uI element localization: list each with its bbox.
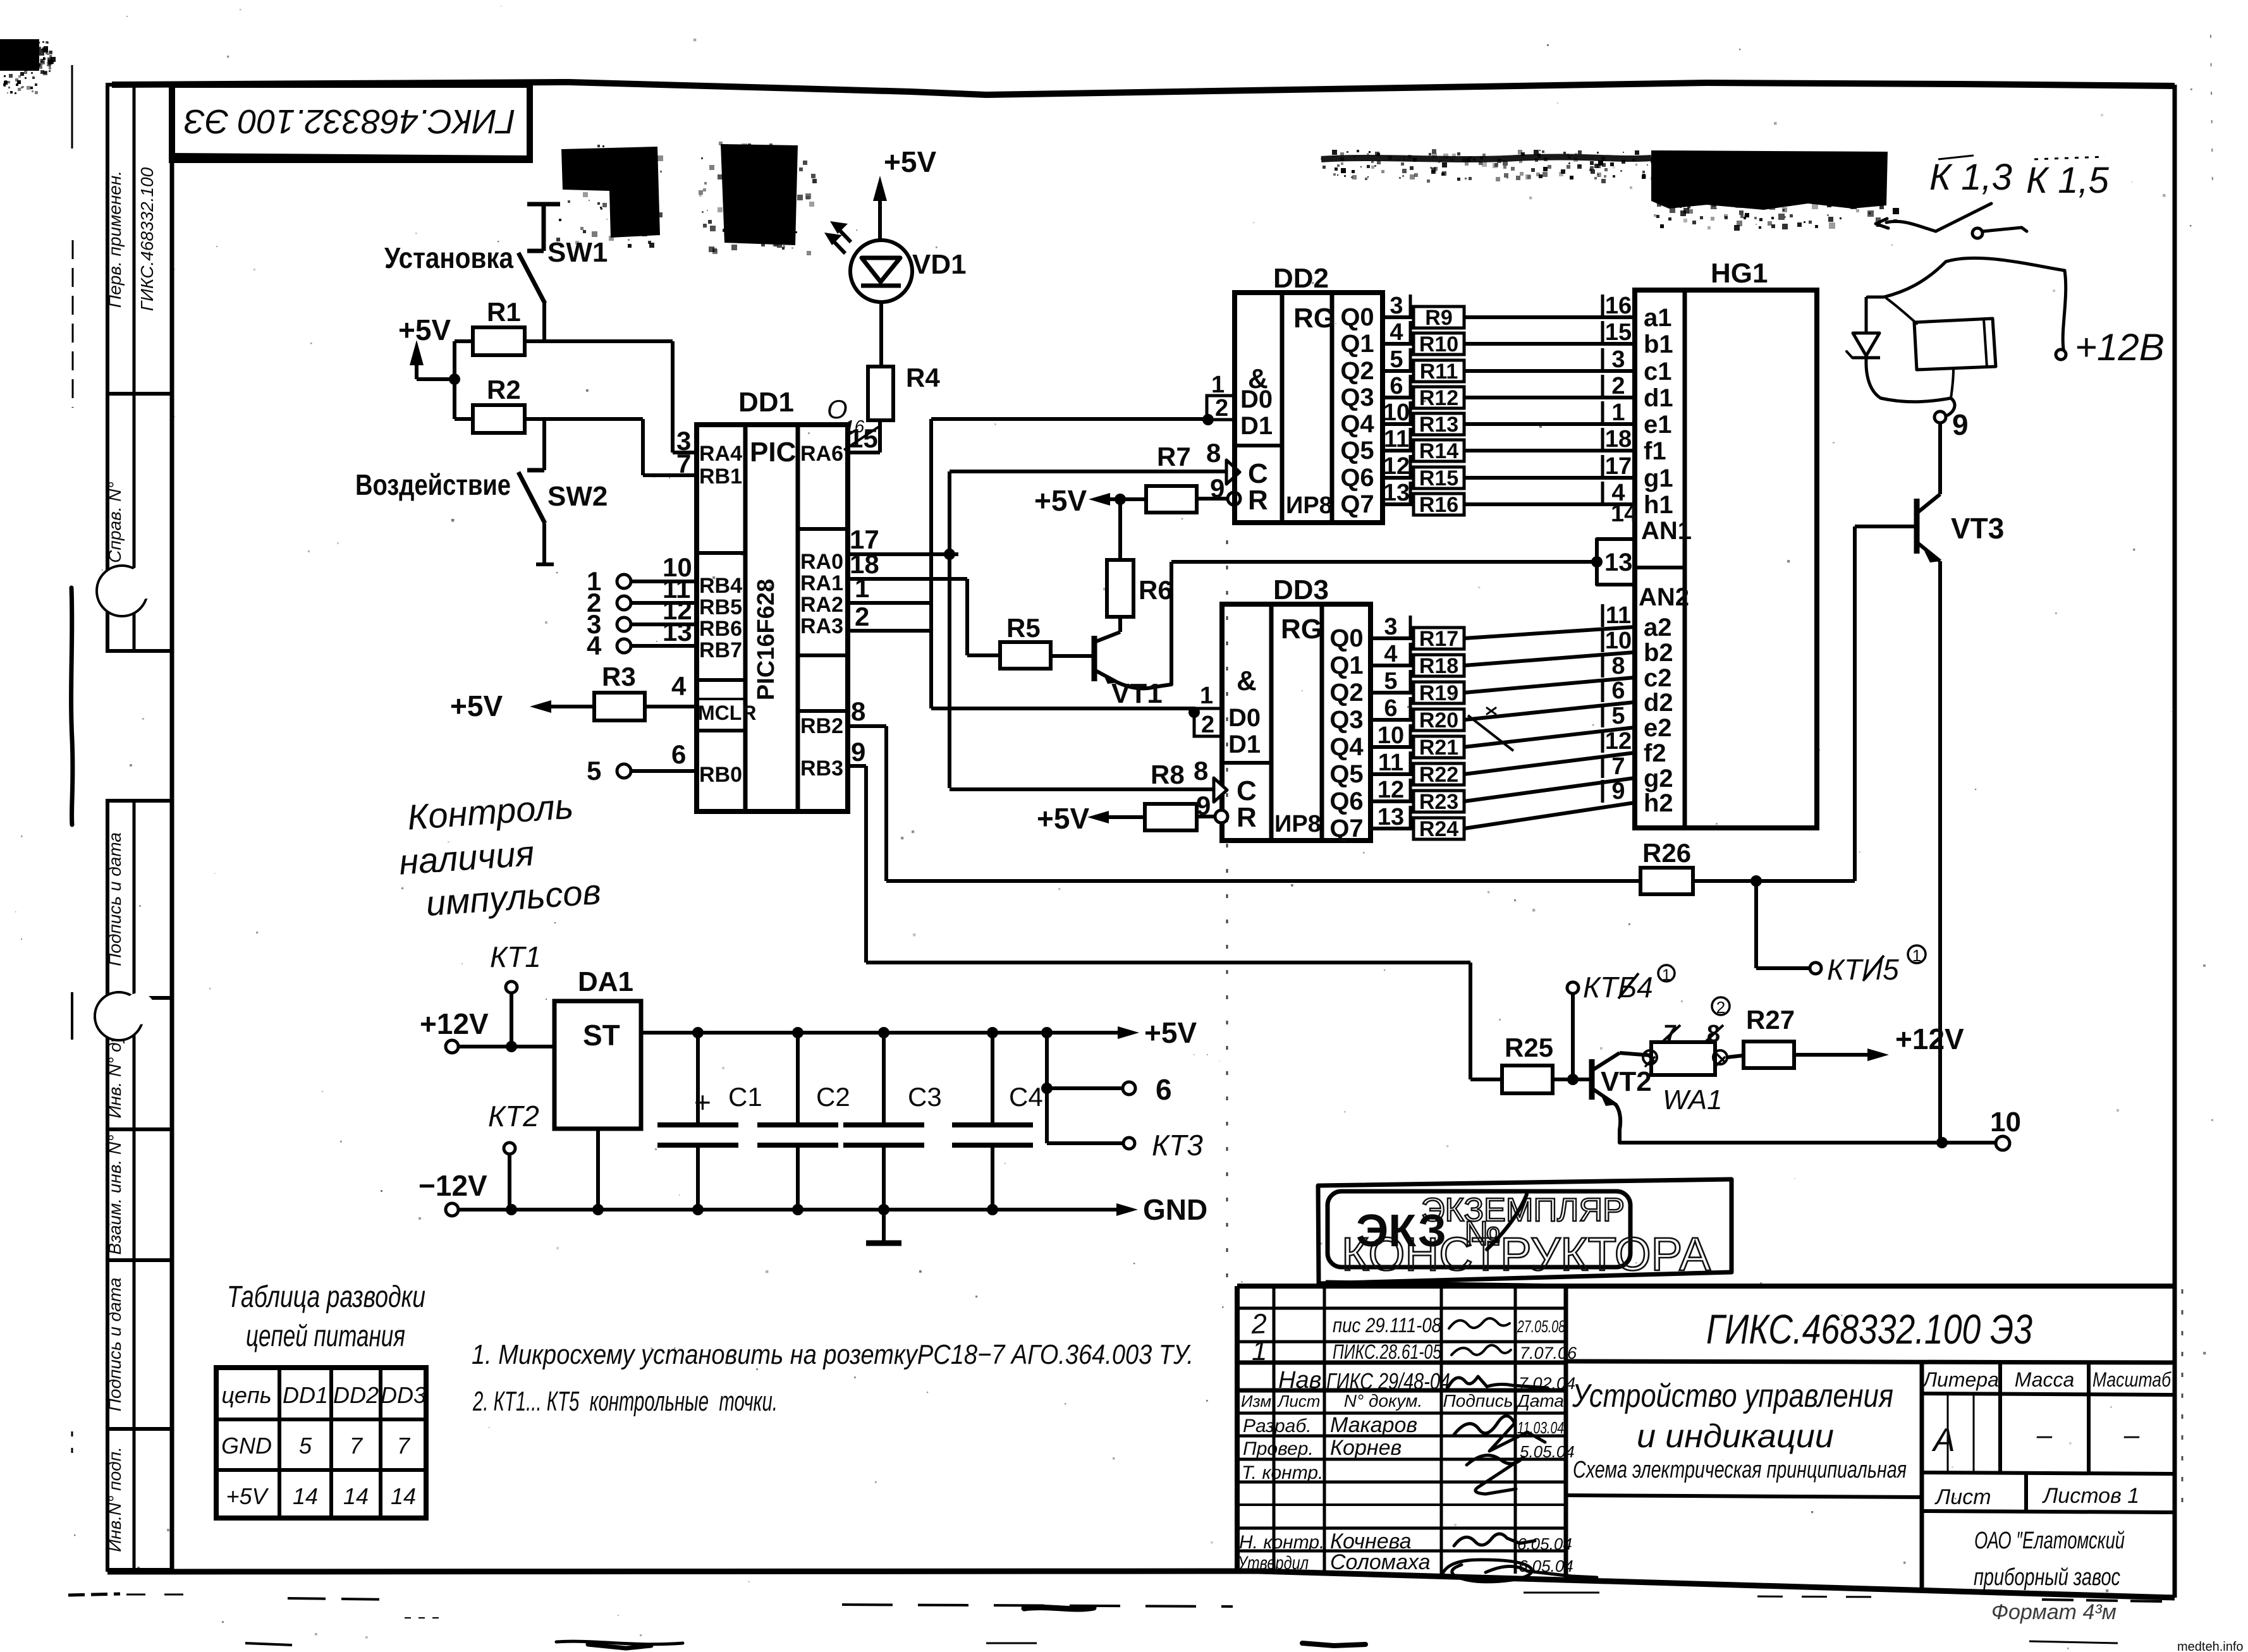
svg-text:7: 7 <box>350 1433 363 1459</box>
resistor R15 <box>1414 467 1464 489</box>
transistor VT2 <box>1592 1053 1651 1143</box>
wire R24 to HG1 h2 <box>1464 803 1635 829</box>
svg-text:3: 3 <box>1384 614 1397 640</box>
svg-text:ИР8: ИР8 <box>1286 492 1333 519</box>
DD3 R inverting circle <box>1215 810 1228 823</box>
svg-text:1: 1 <box>1211 372 1225 398</box>
svg-text:14: 14 <box>343 1483 369 1509</box>
svg-text:VT2: VT2 <box>1601 1066 1652 1097</box>
inspector stamp <box>1318 1179 1732 1286</box>
wire to terminal 10 <box>1620 1141 1996 1145</box>
svg-text:HG1: HG1 <box>1711 258 1768 289</box>
svg-text:10: 10 <box>1605 628 1632 654</box>
svg-text:e1: e1 <box>1644 411 1672 439</box>
svg-text:ГИКС.468332.100 Э3: ГИКС.468332.100 Э3 <box>1706 1306 2032 1352</box>
ground symbol <box>882 1210 886 1243</box>
DD2 D0/D1 bracket pins 1,2 <box>1207 396 1235 420</box>
drawing frame left line <box>170 85 174 1570</box>
HG1 pin13 bracket to AN1/AN2 <box>1597 539 1635 585</box>
svg-text:Q2: Q2 <box>1340 357 1374 385</box>
wire DD3 Q4 pin10 to R21 <box>1371 745 1414 749</box>
svg-text:RB6: RB6 <box>699 617 742 641</box>
svg-text:R10: R10 <box>1419 332 1458 356</box>
svg-text:c2: c2 <box>1644 664 1672 692</box>
svg-text:Q7: Q7 <box>1340 490 1374 518</box>
svg-text:Q0: Q0 <box>1340 303 1374 331</box>
transistor VT3 <box>1917 423 1940 1143</box>
svg-text:К 1,5: К 1,5 <box>2026 160 2110 201</box>
wire DD2 Q5 pin11 to R14 <box>1383 449 1414 452</box>
svg-text:А: А <box>1931 1422 1955 1459</box>
svg-text:RA0: RA0 <box>800 550 843 574</box>
svg-text:Взаим. инв. N°: Взаим. инв. N° <box>105 1135 125 1255</box>
svg-text:14: 14 <box>391 1483 416 1509</box>
scan artifact: black square top-left corner <box>0 39 56 94</box>
svg-text:VT3: VT3 <box>1951 512 2004 545</box>
svg-text:2: 2 <box>1201 712 1214 738</box>
svg-text:ГИКС.468332.100: ГИКС.468332.100 <box>137 167 157 311</box>
svg-text:R13: R13 <box>1419 413 1458 437</box>
svg-text:c1: c1 <box>1644 358 1672 386</box>
wire R2 to DD1 pin7 <box>525 417 643 421</box>
notes 1,2 <box>472 1339 1194 1417</box>
svg-text:27.05.08: 27.05.08 <box>1517 1317 1565 1336</box>
svg-text:2. КТ1... КТ5 контрольные то: 2. КТ1... КТ5 контрольные точки. <box>472 1386 778 1417</box>
GND rail <box>458 1208 1125 1212</box>
wire R12 to HG1 d1 <box>1464 396 1635 399</box>
wire R4 to DD1 RA6 pin15 <box>878 420 882 452</box>
svg-text:Подпись и дата: Подпись и дата <box>105 832 125 966</box>
svg-text:Разраб.: Разраб. <box>1243 1416 1312 1436</box>
svg-text:6: 6 <box>671 739 686 769</box>
wire to DD2 D0/D1 <box>931 417 1207 421</box>
svg-text:Т. контр.: Т. контр. <box>1242 1462 1323 1483</box>
svg-text:R11: R11 <box>1420 360 1458 384</box>
wire R18 to HG1 b2 <box>1464 652 1635 665</box>
svg-text:R23: R23 <box>1419 790 1458 814</box>
svg-text:R24: R24 <box>1419 817 1458 841</box>
svg-text:ЭКЗЕМПЛЯР: ЭКЗЕМПЛЯР <box>1421 1192 1625 1229</box>
handwritten check mark near R20 <box>1468 715 1513 751</box>
wire R23 to HG1 g2 <box>1464 778 1635 801</box>
+5V output rail <box>641 1031 1125 1035</box>
svg-text:16: 16 <box>1605 293 1632 319</box>
DD3 C dynamic input triangle <box>1214 778 1227 802</box>
drawing frame right line <box>2173 85 2177 1598</box>
svg-text:f1: f1 <box>1644 437 1666 465</box>
svg-text:+12В: +12В <box>2075 326 2165 368</box>
svg-text:Устройство управления: Устройство управления <box>1572 1378 1893 1414</box>
svg-text:Нав.: Нав. <box>1278 1367 1328 1394</box>
resistor R25 <box>1502 1066 1553 1093</box>
svg-text:R17: R17 <box>1419 627 1458 651</box>
svg-text:RB2: RB2 <box>800 714 843 738</box>
svg-text:9: 9 <box>1611 778 1625 805</box>
wire DD2 Q6 pin12 to R15 <box>1383 476 1414 480</box>
wire R14 to HG1 f1 <box>1464 449 1635 452</box>
svg-text:a1: a1 <box>1644 304 1672 332</box>
svg-text:4: 4 <box>587 631 602 660</box>
svg-text:7.07.06: 7.07.06 <box>1520 1344 1577 1363</box>
wire to DD2 C input <box>950 470 1226 473</box>
wire R11 to HG1 c1 <box>1464 369 1635 373</box>
svg-text:RG: RG <box>1281 614 1323 645</box>
resistor R9 <box>1414 307 1464 328</box>
svg-text:–: – <box>2123 1419 2140 1450</box>
wire R15 to HG1 g1 <box>1464 476 1635 480</box>
resistor R12 <box>1414 387 1464 408</box>
svg-text:C1: C1 <box>728 1082 762 1112</box>
transistor VT1 <box>1050 632 1171 688</box>
note ref circled 2 <box>1712 997 1730 1015</box>
svg-text:Q4: Q4 <box>1329 733 1364 761</box>
svg-text:+12V: +12V <box>420 1007 489 1040</box>
resistor R24 <box>1414 818 1464 839</box>
svg-text:7: 7 <box>1611 753 1625 780</box>
svg-text:+5V: +5V <box>226 1483 269 1509</box>
svg-text:R15: R15 <box>1419 466 1458 490</box>
svg-text:R6: R6 <box>1139 575 1173 605</box>
scan artifact: dashed vertical right margin <box>2182 1289 2184 1504</box>
svg-text:4: 4 <box>671 671 687 701</box>
wire DD3 Q6 pin12 to R23 <box>1371 799 1414 803</box>
svg-text:AN1: AN1 <box>1641 517 1692 545</box>
IC DD1 PIC16F628 <box>697 425 848 811</box>
svg-text:R: R <box>1248 485 1268 516</box>
scan dashes below frame <box>68 1593 2162 1648</box>
DA1 ground lead <box>596 1129 600 1210</box>
resistor R13 <box>1414 413 1464 435</box>
svg-text:2: 2 <box>1215 395 1228 422</box>
wire DD3 Q3 pin6 to R20 <box>1371 718 1414 722</box>
svg-text:GND: GND <box>221 1433 272 1459</box>
sounder WA1 <box>1643 1042 1727 1075</box>
svg-text:RA3: RA3 <box>800 614 843 638</box>
svg-text:11: 11 <box>1384 426 1409 452</box>
switch SW2 <box>518 419 554 564</box>
svg-text:Подпись: Подпись <box>1443 1391 1513 1411</box>
wire DD3 Q7 pin13 to R24 <box>1371 827 1414 830</box>
svg-text:8: 8 <box>851 696 865 726</box>
resistor R4 (vertical) <box>868 367 893 420</box>
resistor R1 <box>473 327 525 355</box>
svg-text:R26: R26 <box>1642 838 1691 868</box>
svg-text:b2: b2 <box>1644 639 1673 667</box>
svg-text:g2: g2 <box>1644 765 1673 793</box>
resistor R23 <box>1414 791 1464 812</box>
svg-text:g1: g1 <box>1644 465 1673 492</box>
svg-text:R: R <box>1237 802 1257 833</box>
svg-text:e2: e2 <box>1644 714 1672 742</box>
svg-text:R8: R8 <box>1151 760 1185 789</box>
svg-text:Изм: Изм <box>1241 1392 1271 1411</box>
svg-text:7: 7 <box>676 449 691 478</box>
svg-text:Таблица разводки: Таблица разводки <box>227 1280 425 1314</box>
svg-text:RA1: RA1 <box>800 571 843 595</box>
terminal KT3 <box>1045 1088 1049 1143</box>
wire R16 to HG1 h1 <box>1464 502 1635 506</box>
drawing frame bottom line <box>107 1571 2175 1598</box>
svg-text:Корнев: Корнев <box>1330 1436 1402 1460</box>
resistor R6 (vertical) <box>1118 499 1122 560</box>
svg-text:Q2: Q2 <box>1329 679 1363 707</box>
svg-text:R7: R7 <box>1157 442 1191 471</box>
svg-text:DD3: DD3 <box>381 1382 426 1408</box>
svg-text:ОАО ″Елатомский: ОАО ″Елатомский <box>1974 1527 2125 1554</box>
svg-text:5: 5 <box>299 1433 312 1459</box>
resistor R22 <box>1414 763 1464 785</box>
scan artifact: left paper edge line <box>71 65 73 1460</box>
capacitor C1 (polar) <box>696 1033 700 1125</box>
svg-text:d1: d1 <box>1644 384 1673 412</box>
svg-text:5: 5 <box>587 756 601 786</box>
svg-text:R27: R27 <box>1746 1005 1795 1035</box>
svg-text:Формат 4³м: Формат 4³м <box>1991 1600 2117 1624</box>
svg-text:h2: h2 <box>1644 789 1673 817</box>
resistor R2 <box>473 405 525 433</box>
svg-text:Масштаб: Масштаб <box>2092 1368 2172 1391</box>
svg-text:VT1: VT1 <box>1111 678 1163 709</box>
wire RA3 pin2 <box>848 629 931 633</box>
svg-text:11: 11 <box>1606 602 1631 629</box>
svg-text:C4: C4 <box>1009 1082 1043 1112</box>
svg-text:Провер.: Провер. <box>1243 1438 1314 1459</box>
left column strip boxes <box>105 85 172 1570</box>
svg-text:КТ1: КТ1 <box>490 940 541 973</box>
terminal 9 <box>1934 411 1946 423</box>
wire DD2 Q3 pin6 to R12 <box>1383 396 1414 399</box>
svg-text:AN2: AN2 <box>1639 583 1689 611</box>
svg-text:RB1: RB1 <box>699 465 742 489</box>
svg-text:DD2: DD2 <box>1273 263 1329 294</box>
svg-text:Схема электрическая принципиал: Схема электрическая принципиальная <box>1573 1457 1907 1483</box>
svg-text:Q5: Q5 <box>1340 437 1374 465</box>
svg-text:№: № <box>1464 1215 1501 1253</box>
svg-text:RB4: RB4 <box>699 574 742 598</box>
wire RA0 pin17 (clock net) <box>848 552 958 556</box>
svg-text:RB5: RB5 <box>699 595 742 619</box>
wire R26 up to VT3 base <box>1853 526 1857 881</box>
wire DD3 Q1 pin4 to R18 <box>1371 664 1414 667</box>
svg-text:+5V: +5V <box>450 689 503 722</box>
svg-text:RA4: RA4 <box>699 442 742 466</box>
svg-text:13: 13 <box>663 617 692 647</box>
svg-text:КТ3: КТ3 <box>1152 1129 1203 1162</box>
DD3 D0/D1 bracket pins 1,2 <box>1194 708 1222 736</box>
capacitor C2 <box>796 1033 800 1125</box>
svg-text:1: 1 <box>1252 1335 1267 1366</box>
resistor R17 <box>1414 628 1464 649</box>
svg-text:ГИКС 29/48-04: ГИКС 29/48-04 <box>1326 1368 1450 1394</box>
svg-text:Н. контр.: Н. контр. <box>1239 1532 1324 1553</box>
svg-text:Q6: Q6 <box>1329 787 1363 815</box>
resistor R20 <box>1414 709 1464 731</box>
svg-text:Соломаха: Соломаха <box>1330 1550 1431 1574</box>
svg-text:D0: D0 <box>1228 704 1261 732</box>
svg-text:C2: C2 <box>816 1082 850 1112</box>
svg-text:R21: R21 <box>1419 736 1458 760</box>
svg-text:Утвердил: Утвердил <box>1237 1553 1309 1574</box>
IC DD2 shift register <box>1235 293 1383 523</box>
svg-text:RB0: RB0 <box>699 763 742 787</box>
wire DD2 Q4 pin10 to R13 <box>1383 422 1414 426</box>
svg-text:D0: D0 <box>1240 386 1273 413</box>
svg-text:18: 18 <box>1605 426 1632 452</box>
resistor R10 <box>1414 333 1464 355</box>
handwritten K 1,3 K 1,5 <box>1929 157 2110 201</box>
svg-text:medteh.info: medteh.info <box>2177 1640 2244 1652</box>
svg-text:9: 9 <box>1196 791 1211 820</box>
scan artifact: smudge blob B <box>699 142 817 255</box>
svg-text:Лист: Лист <box>1934 1485 1991 1509</box>
DD2 R inverting circle <box>1228 492 1240 505</box>
svg-text:5: 5 <box>1390 346 1403 373</box>
svg-text:Перв. применен.: Перв. применен. <box>105 171 125 308</box>
svg-text:7.02.04: 7.02.04 <box>1518 1374 1575 1393</box>
svg-text:RB7: RB7 <box>699 638 742 662</box>
svg-text:GND: GND <box>1143 1193 1207 1226</box>
svg-text:ГИКС.468332.100 ЭЗ: ГИКС.468332.100 ЭЗ <box>184 102 515 140</box>
svg-text:12: 12 <box>1378 777 1404 803</box>
svg-text:10: 10 <box>1378 722 1404 749</box>
svg-text:9: 9 <box>1952 408 1969 441</box>
svg-text:7: 7 <box>397 1433 411 1459</box>
svg-text:ИР8: ИР8 <box>1274 811 1321 837</box>
resistor R27 <box>1744 1042 1794 1068</box>
svg-text:12: 12 <box>1383 453 1410 480</box>
resistor R14 <box>1414 440 1464 461</box>
wire RB3 pin9 to R25 <box>848 764 866 768</box>
wire RB2 pin8 to R26 <box>848 724 886 728</box>
test point KT5,4 <box>1571 993 1575 1079</box>
svg-text:Q7: Q7 <box>1329 815 1363 842</box>
wire RA1 pin18 to R5 <box>848 577 967 581</box>
svg-text:5: 5 <box>1611 703 1625 729</box>
resistor R21 <box>1414 736 1464 758</box>
terminal 6 <box>1045 1033 1049 1088</box>
svg-text:цепей питания: цепей питания <box>246 1320 405 1353</box>
svg-text:Q4: Q4 <box>1340 410 1374 438</box>
svg-text:+5V: +5V <box>1037 802 1089 835</box>
scan artifact: smudge blob A (left of VD1) <box>556 145 663 248</box>
svg-text:6: 6 <box>1390 373 1403 399</box>
svg-text:К 1,3: К 1,3 <box>1929 157 2012 198</box>
svg-text:5.05.04: 5.05.04 <box>1520 1442 1575 1461</box>
test point KT4,5 <box>1754 881 1758 968</box>
wire to DD3 D0/D1 <box>931 707 1194 710</box>
svg-text:VD1: VD1 <box>912 249 967 280</box>
svg-text:R3: R3 <box>602 662 636 691</box>
svg-text:Установка: Установка <box>384 241 513 274</box>
svg-text:1: 1 <box>1611 399 1625 426</box>
svg-text:Литера: Литера <box>1922 1368 1999 1391</box>
wire DD2 Q1 pin4 to R10 <box>1383 342 1414 346</box>
svg-text:8: 8 <box>1194 756 1208 786</box>
svg-text:3: 3 <box>1611 346 1625 373</box>
svg-text:Подпись и дата: Подпись и дата <box>105 1278 125 1412</box>
svg-text:R2: R2 <box>487 375 521 404</box>
resistor R16 <box>1414 494 1464 515</box>
svg-text:R25: R25 <box>1505 1033 1553 1062</box>
svg-text:13: 13 <box>1383 480 1410 506</box>
svg-text:13: 13 <box>1378 804 1404 830</box>
scan artifact: speckle band top right <box>1321 149 1656 183</box>
+5V supply arrow (left) <box>410 340 460 385</box>
capacitor C3 <box>882 1033 886 1125</box>
svg-text:Q3: Q3 <box>1329 706 1363 734</box>
svg-text:Q3: Q3 <box>1340 384 1374 411</box>
svg-text:9: 9 <box>1210 473 1225 503</box>
svg-text:1: 1 <box>855 573 869 603</box>
svg-text:DA1: DA1 <box>578 966 633 997</box>
svg-text:f2: f2 <box>1644 739 1666 767</box>
svg-text:6: 6 <box>1611 677 1625 704</box>
svg-text:3: 3 <box>1390 293 1403 319</box>
svg-text:6: 6 <box>1156 1073 1172 1106</box>
svg-text:Q1: Q1 <box>1329 652 1363 679</box>
svg-text:1: 1 <box>1912 946 1921 965</box>
resistor R19 <box>1414 682 1464 703</box>
svg-text:Макаров: Макаров <box>1330 1413 1417 1437</box>
svg-text:R16: R16 <box>1419 493 1458 517</box>
svg-text:КТБ4: КТБ4 <box>1583 971 1653 1004</box>
svg-text:10: 10 <box>1990 1107 2021 1138</box>
svg-text:−12V: −12V <box>418 1169 487 1202</box>
svg-text:ЭКЗ: ЭКЗ <box>1356 1206 1446 1256</box>
svg-text:PIC16F628: PIC16F628 <box>753 579 779 700</box>
power wiring table <box>227 1280 425 1353</box>
wire DD3 Q0 pin3 to R17 <box>1371 636 1414 640</box>
wire node to R1 <box>453 341 456 379</box>
signatures <box>1443 1318 1597 1582</box>
svg-text:RG: RG <box>1293 303 1335 334</box>
svg-text:SW1: SW1 <box>547 237 608 268</box>
resistor R26 <box>1640 868 1693 894</box>
wire R1 to DD1 pin3 <box>525 339 673 343</box>
hand-drawn diode <box>1847 297 1955 415</box>
inverted stamp box (document number, rotated 180) <box>172 85 530 160</box>
svg-text:17: 17 <box>1605 453 1632 480</box>
display HG1 <box>1635 290 1817 828</box>
svg-text:6: 6 <box>1384 695 1397 722</box>
svg-text:R14: R14 <box>1419 439 1458 463</box>
svg-text:Q6: Q6 <box>1340 464 1374 492</box>
svg-text:Дата: Дата <box>1515 1391 1564 1411</box>
svg-text:R9: R9 <box>1425 306 1452 330</box>
data net vertical <box>929 419 933 708</box>
svg-text:КТ2: КТ2 <box>488 1100 539 1133</box>
svg-text:d2: d2 <box>1644 689 1673 717</box>
svg-text:R5: R5 <box>1006 613 1041 643</box>
svg-text:PIC: PIC <box>750 437 796 468</box>
hand-drawn wire to +12B <box>1946 258 2066 349</box>
svg-text:13: 13 <box>1604 549 1633 576</box>
svg-text:+12V: +12V <box>1895 1023 1964 1055</box>
svg-text:12: 12 <box>1605 728 1632 755</box>
scan artifact: dense smudge block top right <box>1651 150 1899 231</box>
wire VT1 emitter to HG1 pin13 <box>1170 562 1173 684</box>
resistor R5 <box>1000 642 1051 669</box>
svg-text:КТИ5: КТИ5 <box>1827 953 1899 986</box>
svg-text:Q0: Q0 <box>1329 624 1363 652</box>
svg-text:5: 5 <box>1384 668 1397 695</box>
svg-text:и индикации: и индикации <box>1637 1418 1834 1455</box>
wire SW1 to R1 node <box>542 302 546 343</box>
svg-text:Q1: Q1 <box>1340 330 1374 358</box>
svg-text:+: + <box>694 1086 711 1119</box>
svg-text:RA6: RA6 <box>800 442 843 466</box>
wire R21 to HG1 e2 <box>1464 727 1635 747</box>
